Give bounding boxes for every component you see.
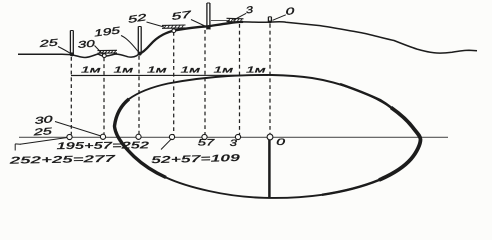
svg-text:25: 25: [38, 37, 59, 50]
svg-text:30: 30: [34, 113, 54, 126]
svg-text:25: 25: [32, 126, 53, 138]
svg-text:195+57=252: 195+57=252: [56, 140, 149, 152]
svg-text:30: 30: [77, 38, 95, 51]
svg-text:1м: 1м: [214, 65, 234, 74]
svg-text:252+25=277: 252+25=277: [9, 153, 116, 166]
svg-text:1м: 1м: [246, 65, 266, 74]
svg-text:3: 3: [230, 138, 238, 148]
svg-text:52+57=109: 52+57=109: [151, 153, 240, 167]
svg-text:1м: 1м: [114, 65, 134, 74]
svg-text:1м: 1м: [147, 65, 167, 74]
svg-text:57: 57: [198, 137, 216, 148]
svg-text:0: 0: [276, 136, 286, 147]
svg-text:1м: 1м: [181, 65, 201, 74]
svg-text:1м: 1м: [81, 65, 101, 74]
